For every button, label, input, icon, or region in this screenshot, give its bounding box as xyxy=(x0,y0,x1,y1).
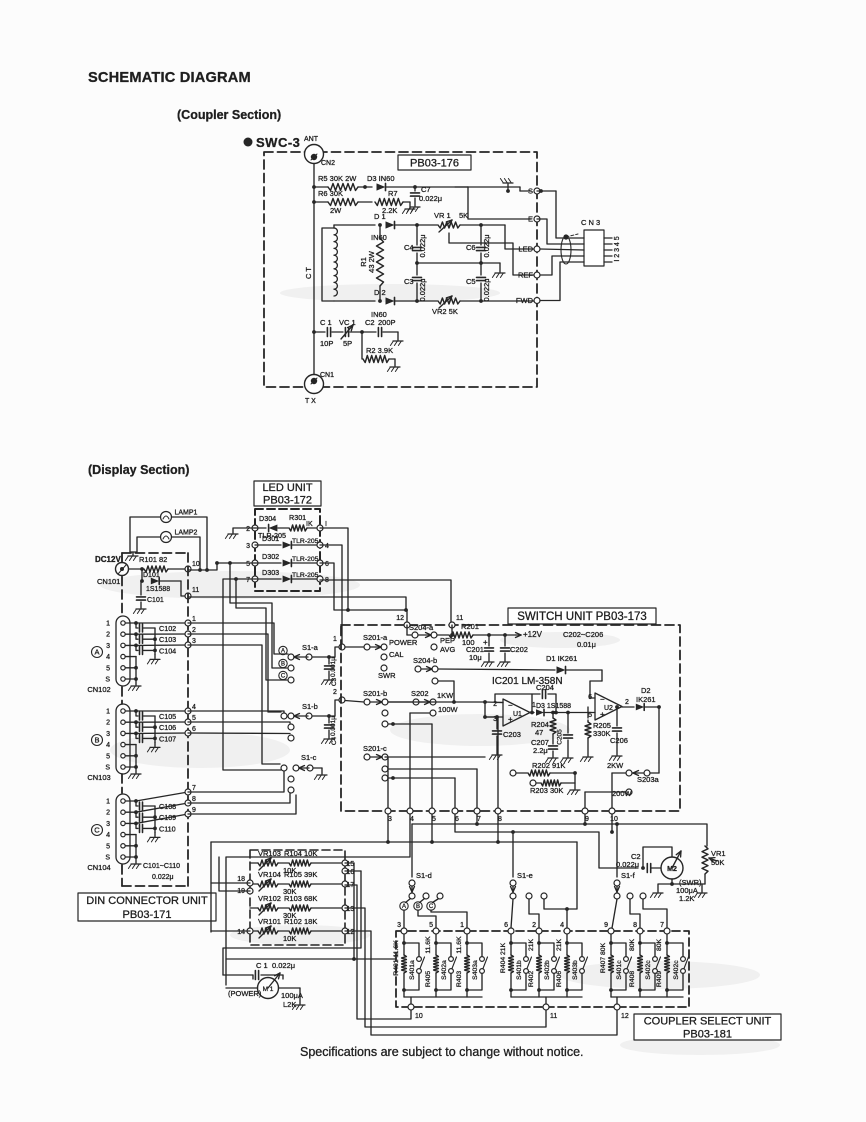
svg-text:6: 6 xyxy=(504,922,508,929)
svg-text:0.022μ: 0.022μ xyxy=(272,961,295,970)
svg-text:C102: C102 xyxy=(159,624,176,633)
svg-text:C204: C204 xyxy=(536,683,554,692)
svg-text:0.01μ: 0.01μ xyxy=(577,640,596,649)
svg-text:C3: C3 xyxy=(331,677,338,686)
svg-text:VR104: VR104 xyxy=(258,870,281,879)
svg-text:11: 11 xyxy=(192,587,199,594)
svg-text:5K: 5K xyxy=(459,211,468,220)
svg-text:1: 1 xyxy=(460,922,464,929)
svg-text:21K: 21K xyxy=(556,938,563,951)
svg-text:FWD: FWD xyxy=(516,296,534,305)
svg-text:R402: R402 xyxy=(528,971,535,987)
svg-text:S: S xyxy=(105,677,110,684)
svg-text:CN102: CN102 xyxy=(87,685,110,694)
svg-text:R203 30K: R203 30K xyxy=(530,786,563,795)
svg-text:C: C xyxy=(429,904,434,910)
svg-text:S1-a: S1-a xyxy=(302,643,319,652)
svg-text:2: 2 xyxy=(625,699,629,706)
svg-text:D303: D303 xyxy=(262,568,279,577)
svg-text:POWER: POWER xyxy=(389,638,418,647)
svg-text:CN2: CN2 xyxy=(321,160,335,167)
svg-text:4: 4 xyxy=(560,922,564,929)
svg-text:R405: R405 xyxy=(425,971,432,987)
svg-text:C202: C202 xyxy=(510,645,528,654)
svg-text:Specifications are subject to: Specifications are subject to change wit… xyxy=(300,1045,584,1059)
svg-text:1: 1 xyxy=(192,616,196,623)
svg-text:S1-d: S1-d xyxy=(416,871,432,880)
svg-text:47: 47 xyxy=(535,728,543,737)
svg-text:S401a: S401a xyxy=(409,960,416,980)
svg-text:D304: D304 xyxy=(259,514,276,523)
svg-text:C103: C103 xyxy=(159,635,176,644)
svg-text:LED UNIT: LED UNIT xyxy=(262,482,312,494)
svg-text:330K: 330K xyxy=(593,729,611,738)
svg-text:AVG: AVG xyxy=(440,645,455,654)
svg-text:1: 1 xyxy=(106,621,110,628)
svg-text:13: 13 xyxy=(347,906,355,913)
svg-text:(Coupler Section): (Coupler Section) xyxy=(177,108,281,122)
svg-text:5: 5 xyxy=(429,922,433,929)
svg-text:C7: C7 xyxy=(421,185,431,194)
svg-text:2.2μ: 2.2μ xyxy=(533,746,548,755)
svg-text:3: 3 xyxy=(397,922,401,929)
svg-text:C2: C2 xyxy=(365,318,375,327)
svg-text:S: S xyxy=(528,187,533,196)
svg-text:S401c: S401c xyxy=(616,960,623,980)
svg-text:L2K: L2K xyxy=(283,1000,296,1009)
svg-text:D3 1S1588: D3 1S1588 xyxy=(536,703,571,710)
svg-text:1: 1 xyxy=(106,799,110,806)
svg-text:15: 15 xyxy=(347,861,355,868)
svg-text:S201-b: S201-b xyxy=(363,689,387,698)
svg-text:5: 5 xyxy=(106,753,110,760)
svg-text:TLR-205: TLR-205 xyxy=(292,556,319,563)
svg-text:R103 68K: R103 68K xyxy=(284,894,317,903)
svg-text:2W: 2W xyxy=(330,206,342,215)
svg-text:18: 18 xyxy=(237,876,245,883)
svg-text:C106: C106 xyxy=(159,723,176,732)
svg-text:C101: C101 xyxy=(147,597,164,604)
svg-text:VR103: VR103 xyxy=(258,849,281,858)
svg-text:R104 10K: R104 10K xyxy=(284,849,317,858)
svg-text:3: 3 xyxy=(106,731,110,738)
svg-text:9: 9 xyxy=(192,807,196,814)
svg-text:I: I xyxy=(325,521,327,528)
svg-text:−: − xyxy=(508,701,513,710)
svg-text:C: C xyxy=(281,674,286,680)
svg-text:14: 14 xyxy=(237,929,245,936)
svg-text:50K: 50K xyxy=(711,858,724,867)
svg-text:S402c: S402c xyxy=(673,960,680,980)
svg-text:A: A xyxy=(281,649,285,655)
svg-text:3: 3 xyxy=(106,821,110,828)
svg-text:0.001μ: 0.001μ xyxy=(330,716,337,736)
svg-text:VR101: VR101 xyxy=(258,917,281,926)
svg-text:0.022μ: 0.022μ xyxy=(419,194,442,203)
svg-text:7: 7 xyxy=(660,922,664,929)
svg-text:B: B xyxy=(281,662,285,668)
svg-text:R407 80K: R407 80K xyxy=(600,942,607,973)
svg-text:R101 82: R101 82 xyxy=(139,555,167,564)
svg-text:4: 4 xyxy=(325,543,329,550)
svg-text:0.022μ: 0.022μ xyxy=(616,860,639,869)
svg-text:2: 2 xyxy=(246,526,250,533)
svg-text:0.022μ: 0.022μ xyxy=(482,278,491,301)
svg-text:C206: C206 xyxy=(610,736,628,745)
svg-text:R401 11.6K: R401 11.6K xyxy=(393,940,400,976)
svg-text:U1: U1 xyxy=(513,711,522,718)
svg-text:PB03-176: PB03-176 xyxy=(410,157,459,169)
svg-text:2: 2 xyxy=(106,720,110,727)
svg-text:PB03-172: PB03-172 xyxy=(263,495,312,507)
svg-text:10: 10 xyxy=(415,1013,423,1020)
svg-text:12: 12 xyxy=(347,929,355,936)
svg-text:DIN CONNECTOR UNIT: DIN CONNECTOR UNIT xyxy=(86,895,208,907)
svg-text:1S1588: 1S1588 xyxy=(146,586,170,593)
svg-text:E: E xyxy=(528,215,533,224)
svg-text:VR102: VR102 xyxy=(258,894,281,903)
svg-text:43 2W: 43 2W xyxy=(367,250,376,273)
svg-text:R403: R403 xyxy=(456,971,463,987)
svg-text:C N 3: C N 3 xyxy=(581,218,600,227)
svg-text:12: 12 xyxy=(621,1013,629,1020)
svg-text:CN104: CN104 xyxy=(87,863,110,872)
svg-text:(Display Section): (Display Section) xyxy=(88,463,189,477)
svg-text:CAL: CAL xyxy=(389,650,404,659)
svg-text:R5 30K 2W: R5 30K 2W xyxy=(318,174,357,183)
svg-text:80K: 80K xyxy=(656,938,663,951)
svg-text:IN60: IN60 xyxy=(371,233,387,242)
svg-text:R201: R201 xyxy=(461,622,479,631)
svg-text:21K: 21K xyxy=(528,938,535,951)
svg-text:0.022μ: 0.022μ xyxy=(418,278,427,301)
svg-text:2: 2 xyxy=(106,810,110,817)
svg-text:S203a: S203a xyxy=(637,775,660,784)
svg-text:10: 10 xyxy=(192,561,200,568)
svg-text:R202 91K: R202 91K xyxy=(532,761,565,770)
svg-text:6: 6 xyxy=(192,726,196,733)
svg-text:B: B xyxy=(94,736,99,745)
svg-text:−: − xyxy=(600,695,605,704)
svg-text:10K: 10K xyxy=(283,934,296,943)
svg-text:200W: 200W xyxy=(612,789,633,798)
svg-text:S1-b: S1-b xyxy=(302,702,318,711)
svg-text:16: 16 xyxy=(347,869,355,876)
svg-text:S: S xyxy=(105,765,110,772)
svg-text:B: B xyxy=(416,904,420,910)
svg-text:C: C xyxy=(94,826,100,835)
svg-text:11: 11 xyxy=(456,615,463,622)
svg-text:6: 6 xyxy=(325,561,329,568)
svg-text:PEP: PEP xyxy=(440,636,455,645)
svg-text:3: 3 xyxy=(192,638,196,645)
svg-text:1: 1 xyxy=(333,636,337,643)
svg-text:LED: LED xyxy=(518,245,533,254)
svg-text:9: 9 xyxy=(604,922,608,929)
svg-text:DC12V: DC12V xyxy=(95,555,121,564)
svg-text:C205: C205 xyxy=(557,729,564,745)
svg-text:5P: 5P xyxy=(343,339,352,348)
svg-text:S: S xyxy=(105,855,110,862)
svg-text:S204-a: S204-a xyxy=(409,623,434,632)
svg-text:A: A xyxy=(402,904,406,910)
svg-text:5: 5 xyxy=(106,665,110,672)
svg-text:1: 1 xyxy=(106,709,110,716)
svg-text:D101: D101 xyxy=(143,572,160,579)
svg-text:1KW: 1KW xyxy=(437,691,454,700)
svg-text:5: 5 xyxy=(106,843,110,850)
svg-text:D302: D302 xyxy=(262,552,279,561)
svg-text:5: 5 xyxy=(192,715,196,722)
svg-text:S201-a: S201-a xyxy=(363,633,388,642)
svg-text:PB03-171: PB03-171 xyxy=(123,909,172,921)
svg-text:2: 2 xyxy=(532,922,536,929)
svg-text:C104: C104 xyxy=(159,646,176,655)
svg-text:1.2K: 1.2K xyxy=(679,894,694,903)
svg-text:REF: REF xyxy=(518,271,533,280)
svg-text:A: A xyxy=(94,648,99,657)
svg-text:2: 2 xyxy=(333,689,337,696)
svg-text:D3 IN60: D3 IN60 xyxy=(367,174,395,183)
svg-text:TLR-205: TLR-205 xyxy=(292,572,319,579)
svg-text:S202: S202 xyxy=(411,689,429,698)
svg-text:80K: 80K xyxy=(629,938,636,951)
svg-text:SCHEMATIC DIAGRAM: SCHEMATIC DIAGRAM xyxy=(88,70,251,86)
svg-text:D1 IK261: D1 IK261 xyxy=(546,654,577,663)
svg-text:200P: 200P xyxy=(378,318,396,327)
svg-text:C202~C206: C202~C206 xyxy=(563,630,603,639)
svg-text:VC 1: VC 1 xyxy=(339,318,356,327)
svg-text:0.022μ: 0.022μ xyxy=(418,234,427,257)
svg-text:11.6K: 11.6K xyxy=(425,936,432,954)
svg-text:C4: C4 xyxy=(331,736,338,745)
svg-text:R301: R301 xyxy=(289,513,306,522)
svg-text:0.022μ: 0.022μ xyxy=(482,234,491,257)
svg-text:R102 18K: R102 18K xyxy=(284,917,317,926)
svg-text:SWITCH UNIT PB03-173: SWITCH UNIT PB03-173 xyxy=(517,611,647,623)
svg-text:CN101: CN101 xyxy=(97,577,120,586)
svg-text:S204-b: S204-b xyxy=(413,656,437,665)
svg-text:R404 21K: R404 21K xyxy=(500,942,507,973)
svg-text:S403b: S403b xyxy=(572,960,579,980)
svg-text:LAMP1: LAMP1 xyxy=(175,510,198,517)
svg-text:7: 7 xyxy=(246,577,250,584)
svg-text:U2: U2 xyxy=(604,705,613,712)
svg-text:C 1: C 1 xyxy=(320,318,332,327)
svg-text:S403a: S403a xyxy=(472,960,479,980)
svg-text:+12V: +12V xyxy=(523,630,543,639)
svg-text:10μ: 10μ xyxy=(469,653,482,662)
svg-text:0.022μ: 0.022μ xyxy=(152,874,174,881)
svg-text:10: 10 xyxy=(610,816,618,823)
svg-text:S402c: S402c xyxy=(645,960,652,980)
svg-text:R408: R408 xyxy=(629,971,636,987)
svg-text:C105: C105 xyxy=(159,712,176,721)
svg-text:S1-c: S1-c xyxy=(301,753,317,762)
svg-text:0.001μ: 0.001μ xyxy=(330,657,337,677)
svg-text:C101~C110: C101~C110 xyxy=(143,863,180,870)
svg-text:PB03-181: PB03-181 xyxy=(683,1028,732,1040)
svg-text:11.6K: 11.6K xyxy=(456,936,463,954)
svg-text:100W: 100W xyxy=(438,705,459,714)
svg-text:3: 3 xyxy=(246,543,250,550)
svg-text:C4: C4 xyxy=(404,243,414,252)
svg-text:2: 2 xyxy=(106,632,110,639)
svg-text:12: 12 xyxy=(396,615,404,622)
svg-text:3: 3 xyxy=(106,643,110,650)
svg-text:(POWER): (POWER) xyxy=(228,989,262,998)
svg-text:S1-f: S1-f xyxy=(621,871,636,880)
svg-text:R105 39K: R105 39K xyxy=(284,870,317,879)
svg-text:C203: C203 xyxy=(503,730,521,739)
svg-text:TLR-205: TLR-205 xyxy=(292,538,319,545)
svg-text:D2: D2 xyxy=(641,686,651,695)
svg-text:LAMP2: LAMP2 xyxy=(175,530,198,537)
svg-text:VR2 5K: VR2 5K xyxy=(432,307,458,316)
svg-text:IK261: IK261 xyxy=(636,695,656,704)
svg-text:2KW: 2KW xyxy=(607,761,624,770)
svg-text:SWR: SWR xyxy=(378,671,396,680)
svg-text:2: 2 xyxy=(192,627,196,634)
svg-text:S402b: S402b xyxy=(544,960,551,980)
svg-text:C T: C T xyxy=(304,267,313,279)
svg-text:C5: C5 xyxy=(466,277,476,286)
svg-text:COUPLER SELECT UNIT: COUPLER SELECT UNIT xyxy=(644,1015,772,1027)
svg-text:8: 8 xyxy=(192,796,196,803)
svg-text:VR 1: VR 1 xyxy=(434,211,451,220)
svg-text:T X: T X xyxy=(305,398,316,405)
svg-text:CN103: CN103 xyxy=(87,773,110,782)
svg-text:C 1: C 1 xyxy=(256,961,268,970)
svg-text:S402a: S402a xyxy=(441,960,448,980)
svg-text:S401b: S401b xyxy=(516,960,523,980)
svg-text:R7: R7 xyxy=(388,189,398,198)
svg-text:R406: R406 xyxy=(556,971,563,987)
svg-text:SWC-3: SWC-3 xyxy=(256,135,300,150)
svg-text:CN1: CN1 xyxy=(320,372,334,379)
svg-text:D301: D301 xyxy=(262,534,279,543)
svg-text:5: 5 xyxy=(246,561,250,568)
svg-text:ANT: ANT xyxy=(304,136,319,143)
svg-text:IK: IK xyxy=(306,521,313,528)
svg-text:C107: C107 xyxy=(159,734,176,743)
svg-text:S1-e: S1-e xyxy=(517,871,533,880)
svg-text:VR1: VR1 xyxy=(711,849,726,858)
svg-text:8: 8 xyxy=(633,922,637,929)
svg-text:R2 3.9K: R2 3.9K xyxy=(366,346,393,355)
svg-text:4: 4 xyxy=(106,832,110,839)
svg-text:C3: C3 xyxy=(404,277,414,286)
svg-text:4: 4 xyxy=(106,654,110,661)
svg-text:S201-c: S201-c xyxy=(363,744,387,753)
svg-text:C6: C6 xyxy=(466,243,476,252)
svg-text:4: 4 xyxy=(106,742,110,749)
svg-text:R6 30K: R6 30K xyxy=(318,189,343,198)
svg-text:D 1: D 1 xyxy=(374,212,386,221)
svg-text:I 2 3 4 5: I 2 3 4 5 xyxy=(614,236,621,261)
svg-text:100μA: 100μA xyxy=(281,991,303,1000)
svg-text:10P: 10P xyxy=(320,339,333,348)
svg-text:C110: C110 xyxy=(159,824,176,833)
svg-text:11: 11 xyxy=(550,1013,557,1020)
svg-text:4: 4 xyxy=(192,704,196,711)
svg-text:7: 7 xyxy=(192,785,196,792)
